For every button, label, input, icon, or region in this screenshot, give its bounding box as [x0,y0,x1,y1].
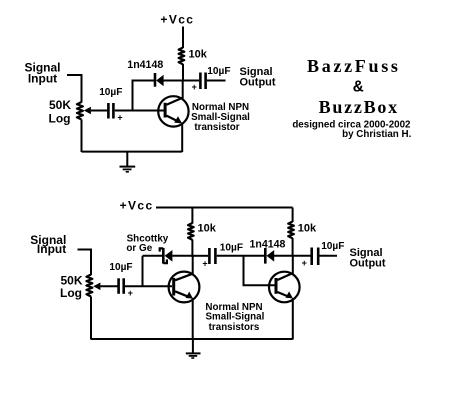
svg-text:10k: 10k [198,223,217,235]
svg-text:or Ge: or Ge [126,243,152,254]
svg-text:+Vcc: +Vcc [120,199,154,213]
potentiometer VR2 wiper arrow [93,283,100,291]
wire rail corner down to R3 [292,208,294,223]
wire R2 bottom to node C [191,240,193,257]
svg-text:Log: Log [60,286,82,300]
wire Q1 emitter down to rail [181,123,183,153]
label Normal NPN Small-Signal transistor (top) [191,102,250,133]
wire Q2 collector up to node C [192,256,194,274]
wire Vcc rail (bottom) [156,207,293,209]
label Shcottky or Ge [126,233,168,254]
svg-text:10µF: 10µF [207,66,230,77]
wire Q3 emitter down to rail [292,298,294,340]
wire node A to C2 [184,80,199,82]
wire C4 to output [320,255,338,257]
svg-text:transistor: transistor [194,122,239,133]
wire feedback node D down to Q2 base row [142,256,144,287]
wire pot bottom to rail [81,120,83,153]
svg-text:&: & [353,78,364,97]
resistor R1 10k body [179,48,185,65]
svg-text:10µF: 10µF [109,262,132,273]
wire rail to R2 top [191,208,193,224]
ground (bottom circuit) [186,339,201,358]
wire D1 anode to node A [164,80,185,82]
svg-text:10µF: 10µF [99,87,122,98]
ground (top circuit) [120,152,136,172]
capacitor C5 10uF input (bottom) [119,278,124,294]
transistor Q2 [169,272,200,303]
svg-text:10µF: 10µF [321,241,344,252]
svg-text:+: + [202,259,207,269]
wire bottom rail (bottom circuit) [91,338,293,340]
svg-text:10k: 10k [189,49,208,61]
svg-text:Input: Input [28,72,57,86]
wire wiper to C5 [100,285,117,287]
potentiometer VR1 50K body [77,102,83,120]
svg-text:50K: 50K [49,98,71,112]
svg-text:by Christian H.: by Christian H. [342,129,411,140]
wire feedback node B down to base row [132,81,134,112]
wire input to pot top (bottom) [78,250,92,276]
diode D1 1n4148 [155,73,164,87]
wire Vcc to R1 top [182,27,184,49]
label Signal Output (bottom) [350,247,386,269]
wire node F to D3 cathode [244,255,265,257]
svg-text:+: + [192,82,197,92]
wire C2 to output [207,80,226,82]
potentiometer VR2 50K body [86,275,92,297]
capacitor C2 10uF output (top) [200,73,205,90]
svg-text:Small-Signal: Small-Signal [206,311,265,322]
wire R1 bottom to node A [182,64,184,82]
wire Q1 collector up to node A [182,81,184,99]
label Signal Input (bottom) [30,233,66,256]
label Normal NPN Small-Signal transistors (bottom) [205,302,264,333]
svg-text:+Vcc: +Vcc [160,12,194,26]
svg-text:10k: 10k [298,223,317,235]
wire node B to D1 cathode [132,80,155,82]
capacitor C1 10uF input (top) [108,103,113,119]
potentiometer VR1 wiper arrow [84,107,91,115]
label Signal Output (top) [240,66,276,89]
transistor Q3 [269,272,300,303]
diode D2 Schottky [160,248,173,264]
resistor R2 10k body [188,223,194,240]
wire node F down and right to Q3 base [244,256,275,285]
svg-text:+: + [128,288,133,298]
wire node D to D2 cathode [143,255,163,257]
svg-text:Output: Output [350,257,386,269]
wire wiper to C1 [91,110,108,112]
wire Q3 collector up to node E [292,256,294,274]
diode D3 1n4148 [265,248,274,264]
label Signal Input (top) [24,61,60,86]
svg-text:transistors: transistors [209,322,260,333]
svg-text:BuzzBox: BuzzBox [319,97,399,117]
wire D3 anode to node E and C4 [274,255,311,257]
svg-text:+: + [117,113,122,123]
svg-text:BazzFuss: BazzFuss [307,56,401,76]
wire C3 to node F [217,255,244,257]
capacitor C3 10uF interstage [209,248,215,264]
svg-text:1n4148: 1n4148 [127,59,163,71]
svg-text:10µF: 10µF [220,243,243,254]
wire node C to C3 [193,255,208,257]
wire C1 to Q1 base [115,110,164,112]
svg-text:Input: Input [37,242,66,256]
transistor Q1 [158,96,188,126]
svg-text:Output: Output [240,77,276,89]
capacitor C4 10uF output (bottom) [312,248,319,266]
resistor R3 10k body [288,222,294,239]
svg-text:+: + [302,258,307,268]
wire pot bottom to rail (bottom) [90,297,92,340]
wire C5 to Q2 base [125,285,172,287]
wire Q2 emitter down to rail [192,298,194,340]
wire D2 anode to node C [172,255,193,257]
wire bottom rail (top circuit) [82,151,183,153]
wire R3 bottom to node E [292,238,294,257]
svg-text:1n4148: 1n4148 [250,238,286,250]
wire input to pot top (top) [67,75,82,103]
svg-text:Log: Log [49,112,71,126]
